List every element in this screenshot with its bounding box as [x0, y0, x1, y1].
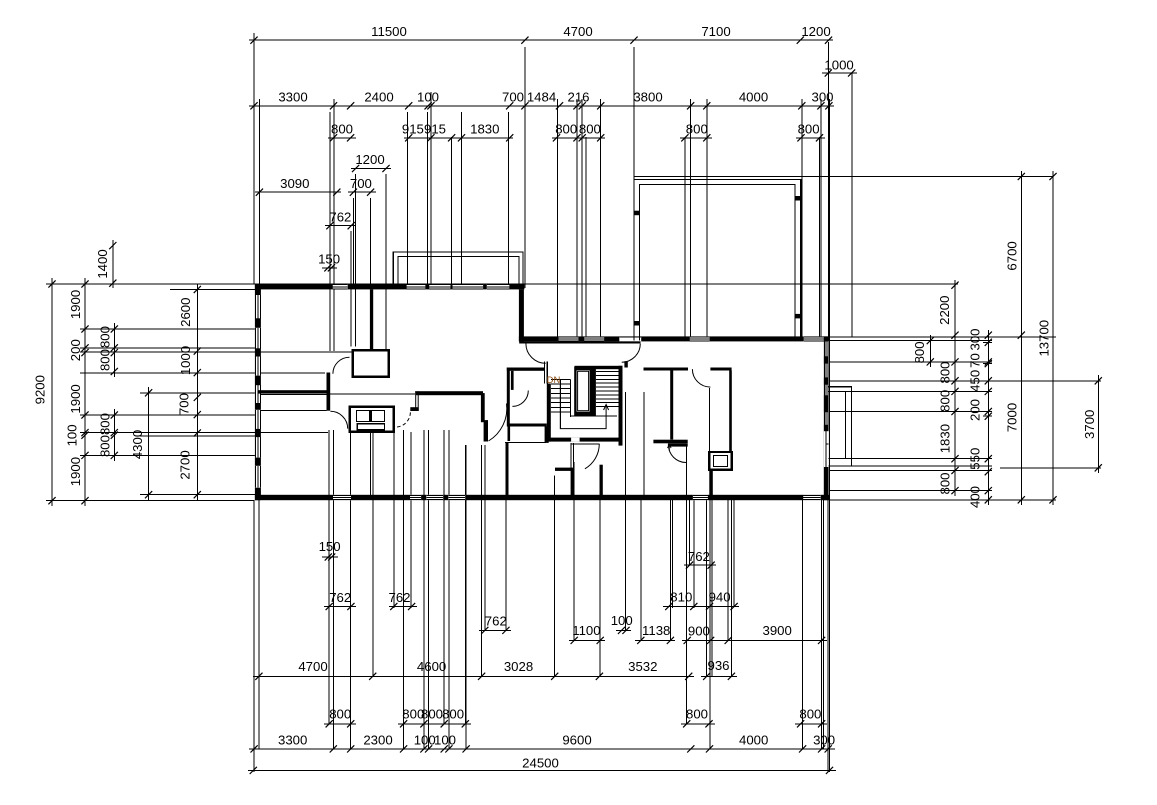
svg-text:9200: 9200 [33, 375, 48, 404]
door wall end corridor [481, 393, 485, 422]
svg-text:700: 700 [177, 393, 192, 415]
stair landing line [571, 415, 617, 417]
svg-text:2200: 2200 [937, 296, 952, 325]
dim chain 1000 top right [822, 69, 857, 76]
svg-text:1138: 1138 [642, 623, 670, 638]
svg-text:3700: 3700 [1082, 410, 1097, 439]
svg-text:1900: 1900 [68, 384, 83, 413]
svg-text:800: 800 [329, 707, 351, 722]
stair treads left [551, 379, 571, 412]
svg-text:100: 100 [434, 733, 456, 748]
svg-text:6700: 6700 [1005, 241, 1020, 270]
svg-text:800: 800 [579, 122, 601, 137]
svg-text:100: 100 [611, 613, 633, 628]
dim chain 800x3 bot [398, 720, 471, 727]
wall right outer [824, 336, 829, 500]
thin corridor line [330, 393, 415, 395]
svg-text:300: 300 [813, 733, 835, 748]
svg-text:800: 800 [937, 361, 952, 383]
svg-text:800: 800 [98, 413, 113, 435]
svg-text:1484: 1484 [527, 90, 556, 105]
dim chain 800 top right [796, 134, 825, 141]
dim chain 13700 [1049, 171, 1056, 505]
closet drain wall [370, 432, 372, 495]
dim chain 762 bot1 [324, 603, 356, 610]
line closet top to wall [260, 410, 327, 412]
closet upper [353, 350, 389, 377]
svg-text:915: 915 [424, 122, 446, 137]
parapet canopy top-left [393, 252, 523, 284]
dim chain 915/915/1830 [404, 134, 513, 141]
svg-text:900: 900 [688, 624, 710, 639]
svg-text:800: 800 [98, 349, 113, 371]
stair hall west jamb [543, 361, 545, 383]
svg-text:800: 800 [421, 707, 443, 722]
dim chain 700 top [348, 189, 376, 196]
svg-text:216: 216 [567, 90, 589, 105]
dim chain 4300 [145, 387, 152, 500]
closet lower with compartments [350, 407, 394, 432]
wall below closet [709, 470, 713, 495]
dim chain 800 topleft [328, 134, 356, 141]
wall partition vertical upper [370, 289, 373, 350]
svg-text:150: 150 [319, 539, 341, 554]
svg-text:2300: 2300 [363, 733, 392, 748]
svg-text:100: 100 [414, 733, 436, 748]
svg-text:762: 762 [329, 590, 351, 605]
svg-text:762: 762 [388, 590, 410, 605]
door arc closet upper [333, 357, 350, 374]
dim chain 4700/4600/3028/3532 [253, 673, 694, 680]
entrance lintel band [519, 341, 640, 343]
svg-text:800: 800 [798, 122, 820, 137]
dim chain 24500 [248, 767, 836, 774]
svg-text:300: 300 [811, 90, 833, 105]
svg-text:800: 800 [98, 435, 113, 457]
svg-text:3532: 3532 [628, 659, 657, 674]
dim chain 3090 [255, 189, 341, 196]
wall corridor upper left [258, 390, 327, 393]
wall corridor lower [415, 391, 483, 395]
wall right apt divider [670, 371, 673, 440]
svg-text:2400: 2400 [364, 90, 393, 105]
dim chain bottom row 3300/2300/100/100/9600/4000/300 [249, 745, 835, 752]
door leaf below stairs [571, 443, 600, 445]
door leaf wc [511, 371, 514, 390]
svg-text:700: 700 [502, 90, 524, 105]
svg-text:4300: 4300 [130, 430, 145, 459]
dim chain 900/3900 [682, 637, 827, 644]
windows top-middle wall [559, 336, 824, 341]
wall top-middle outer [519, 336, 829, 341]
svg-text:810: 810 [670, 590, 692, 605]
svg-text:800: 800 [912, 341, 927, 363]
dim chain 150 top star [322, 264, 337, 271]
entrance door arc right [622, 344, 641, 363]
dim chain 1100 [569, 637, 605, 644]
svg-text:762: 762 [688, 549, 710, 564]
dim chain 3700 [1095, 375, 1102, 473]
svg-text:1830: 1830 [470, 122, 499, 137]
wall bridge wc-stair [545, 427, 549, 443]
svg-text:100: 100 [65, 424, 80, 446]
dim chain 762 top [325, 222, 356, 229]
stair enclosure bottom wall [547, 438, 623, 442]
svg-text:800: 800 [937, 472, 952, 494]
vestibule right line [643, 392, 645, 495]
svg-text:4000: 4000 [739, 90, 768, 105]
dim chain 1138 [635, 637, 675, 644]
svg-text:1200: 1200 [355, 152, 384, 167]
svg-text:100: 100 [417, 90, 439, 105]
wall below corridor door [506, 443, 509, 495]
door arc corridor end [489, 404, 507, 442]
dim chain top row2 [249, 102, 834, 109]
tiny up arrow [668, 445, 672, 451]
door jamb wall below stairs [600, 465, 603, 496]
thin line left of stair bottom [505, 441, 546, 443]
svg-text:1000: 1000 [824, 58, 853, 73]
dim chain 762 bot3 [479, 627, 511, 634]
svg-text:70: 70 [967, 353, 982, 368]
svg-text:3090: 3090 [280, 176, 309, 191]
svg-text:3800: 3800 [633, 90, 662, 105]
svg-text:936: 936 [707, 658, 729, 673]
extension lines top [254, 33, 852, 772]
dim chain left 800 pair1 [111, 323, 118, 377]
stair enclosure right wall [619, 366, 623, 446]
wall right apt closet column [729, 371, 732, 453]
wall bottom outer [255, 495, 829, 500]
dim chain 800 top annex [680, 134, 712, 141]
dim chain left 1900/200/1900/100/1900 [81, 278, 88, 506]
stair shaft [574, 367, 596, 417]
wall stub below stairs [555, 468, 572, 471]
dim chain 762 bot2 [389, 603, 417, 610]
svg-text:13700: 13700 [1037, 320, 1052, 357]
dim chain 9200 [48, 278, 55, 506]
dim chain top row1 11500/4700/7100/1200 [249, 37, 833, 44]
door arc closet lower right dashed [395, 412, 410, 427]
svg-text:550: 550 [967, 448, 982, 470]
windows right wall [824, 342, 829, 468]
dim chain 800 bot right1 [681, 720, 715, 727]
dim chain left 2600/1000/700/2700 [194, 284, 201, 500]
dim chain 800 bot1 [324, 720, 356, 727]
extension lines left [46, 284, 390, 501]
svg-text:11500: 11500 [371, 24, 407, 39]
svg-text:800: 800 [98, 326, 113, 348]
door arc below stairs [585, 444, 599, 469]
svg-text:24500: 24500 [522, 756, 559, 771]
svg-text:800: 800 [937, 390, 952, 412]
svg-text:800: 800 [686, 707, 708, 722]
svg-text:3900: 3900 [763, 623, 792, 638]
svg-text:800: 800 [442, 707, 464, 722]
svg-text:400: 400 [967, 486, 982, 508]
svg-text:800: 800 [799, 707, 821, 722]
wall step right of left section [519, 289, 524, 341]
svg-text:800: 800 [331, 122, 353, 137]
svg-text:800: 800 [555, 122, 577, 137]
svg-text:2700: 2700 [178, 450, 193, 479]
wall right apt upper [644, 368, 689, 371]
balcony right [829, 387, 852, 466]
svg-text:3300: 3300 [278, 733, 307, 748]
door arc right apt upper [692, 369, 710, 387]
svg-text:800: 800 [686, 122, 708, 137]
dim chain 762 bottom right [684, 562, 716, 569]
svg-text:3300: 3300 [278, 90, 307, 105]
svg-text:200: 200 [967, 399, 982, 421]
door arc vestibule lower [330, 411, 347, 428]
dim chain 800 bot right2 [795, 720, 827, 727]
dim chain right 2200/800/800/1830/800 [951, 280, 958, 496]
dim chain 6700/7000 [1018, 171, 1025, 505]
stair enclosure top wall [575, 366, 623, 369]
svg-text:1100: 1100 [572, 623, 600, 638]
extension lines right [46, 177, 1101, 500]
svg-text:1900: 1900 [68, 290, 83, 319]
dim chain 150 bottom star [322, 553, 338, 560]
svg-text:4000: 4000 [739, 733, 768, 748]
wall left outer [255, 284, 261, 500]
svg-text:1200: 1200 [801, 24, 830, 39]
svg-text:1900: 1900 [68, 457, 83, 486]
windows bottom wall [333, 495, 821, 500]
wall wc bottom [508, 424, 547, 427]
door jog wall right of closet [415, 391, 416, 411]
svg-text:1400: 1400 [95, 249, 110, 278]
svg-text:762: 762 [485, 614, 507, 629]
dim chain right 800 small [927, 335, 934, 367]
wall wc top [507, 368, 545, 371]
svg-text:4700: 4700 [298, 659, 327, 674]
annex terrace top-right [634, 179, 801, 340]
svg-text:1000: 1000 [178, 346, 193, 375]
door arc right apt lower [669, 445, 687, 463]
svg-text:4600: 4600 [417, 659, 446, 674]
wall top-left outer [255, 284, 525, 289]
svg-text:DN: DN [547, 375, 561, 386]
stair hall east jamb stub [624, 361, 627, 367]
windows left wall [255, 295, 261, 488]
wall below stairs outline [570, 443, 572, 468]
svg-text:3028: 3028 [504, 659, 533, 674]
svg-text:200: 200 [68, 339, 83, 361]
svg-text:4700: 4700 [563, 24, 592, 39]
svg-text:7000: 7000 [1005, 403, 1020, 432]
extension lines bottom [254, 392, 828, 772]
dim chain right star chain [985, 330, 992, 505]
dim chain 936 [701, 673, 737, 680]
svg-text:940: 940 [709, 590, 731, 605]
stair treads right [596, 372, 619, 407]
door arc wc [512, 391, 528, 407]
svg-text:150: 150 [318, 252, 340, 267]
stair enclosure left wall [547, 384, 551, 442]
svg-text:450: 450 [967, 370, 982, 392]
stair tread rails [559, 379, 561, 428]
entrance door arc left [526, 344, 546, 364]
dim chain left 800 pair2 [111, 409, 118, 461]
closet right apt [709, 452, 732, 470]
dim chain 1400 [109, 240, 116, 288]
wall wc left lower [508, 427, 511, 442]
dim chain 810/940 [663, 603, 739, 610]
svg-text:915: 915 [402, 122, 424, 137]
svg-text:1830: 1830 [937, 424, 952, 453]
wall vestibule jog [327, 373, 331, 411]
svg-text:300: 300 [967, 328, 982, 350]
svg-text:2600: 2600 [178, 298, 193, 327]
wall right apt T stub [653, 440, 687, 444]
dim chain 800/800 mid [552, 134, 605, 141]
svg-text:9600: 9600 [562, 733, 591, 748]
dim chain 100 bot star [616, 627, 631, 634]
svg-text:762: 762 [329, 210, 351, 225]
stair walk line with arrow [560, 384, 606, 429]
wall wc left [507, 368, 510, 427]
windows top-left wall [333, 284, 510, 289]
entrance door opening [619, 337, 641, 342]
wall below stairs solid [571, 468, 574, 496]
svg-text:700: 700 [350, 176, 372, 191]
door leaf right apt [668, 443, 688, 446]
dim chain 1200 [351, 165, 391, 172]
svg-text:7100: 7100 [701, 24, 730, 39]
